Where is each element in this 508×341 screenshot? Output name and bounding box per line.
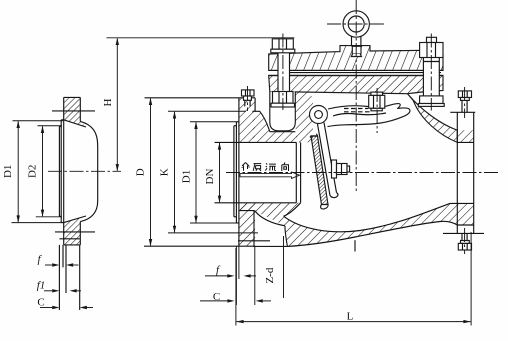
bonnet gasket joint lines bbox=[269, 69, 443, 71]
left view top rim (hatched) bbox=[64, 97, 86, 127]
svg-text:D1: D1 bbox=[181, 170, 193, 183]
DIMENSIONS bbox=[12, 38, 472, 326]
eyebolt ring inner bbox=[348, 16, 364, 32]
left view horizontal centerline bbox=[48, 170, 121, 172]
left view neck bulge bbox=[80, 121, 97, 221]
outlet flange stud (bottom) bbox=[461, 233, 463, 240]
outlet flange stud centerline top bbox=[464, 87, 466, 118]
svg-text:K: K bbox=[159, 168, 171, 176]
inlet bore top line bbox=[215, 141, 297, 143]
dimension D2 (left view) bbox=[42, 126, 44, 216]
left view raised face step 2 bbox=[58, 127, 60, 217]
body upper flange band (hatched) bbox=[269, 76, 443, 94]
bonnet bolt left: upper nut bbox=[272, 39, 293, 49]
hinge arm (horizontal lever with hook) bbox=[328, 104, 410, 127]
inlet flange (hatched bands) bbox=[239, 98, 255, 143]
inlet flange outline bbox=[238, 98, 240, 246]
seat ring bbox=[295, 142, 297, 202]
left view bottom rim (hatched) bbox=[64, 216, 86, 245]
svg-text:C: C bbox=[213, 291, 220, 303]
outlet bore lines bbox=[450, 202, 474, 204]
body right wall (hatched band) bbox=[408, 94, 458, 143]
disc bottom curl bbox=[321, 205, 329, 209]
eyebolt ring outer bbox=[343, 11, 369, 37]
eyebolt vertical centerline bbox=[355, 0, 357, 192]
dimension f (left view) bbox=[45, 264, 52, 266]
outlet flange stud centerline bottom bbox=[464, 228, 466, 254]
left view pipe end step line bbox=[59, 238, 79, 240]
disc bolt nut bbox=[337, 164, 348, 175]
bowl outer curve bbox=[287, 221, 457, 246]
svg-text:f: f bbox=[37, 254, 42, 266]
arm middle wavy line bbox=[333, 113, 386, 116]
left bonnet bolt centerline bbox=[282, 34, 284, 111]
inlet raised face step 1 bbox=[235, 122, 237, 223]
Z-d leader line bbox=[283, 236, 285, 298]
disc bolt washer plate bbox=[332, 160, 337, 178]
left view raised face step 1 bbox=[60, 120, 62, 223]
hinge arm lower part (boss to disc lug) bbox=[318, 123, 337, 196]
bonnet bolt left: lower nut bbox=[273, 92, 294, 104]
dimension H bbox=[107, 37, 295, 39]
arm hidden lines bbox=[344, 109, 370, 112]
inlet bottom wall band (hatched) bbox=[239, 203, 457, 247]
dimension f (main) bbox=[235, 246, 237, 305]
outlet flange bbox=[456, 112, 458, 233]
left nut recess in body (white U) bbox=[270, 92, 296, 131]
dimension labels bbox=[2, 98, 354, 322]
main horizontal centerline bbox=[226, 172, 500, 174]
arm pivot stud nut (on arm) bbox=[371, 108, 382, 111]
left view bolt circle lines bbox=[52, 110, 95, 112]
bonnet bolt left: stud shaft bbox=[277, 53, 279, 92]
dimension f1 (left view) bbox=[44, 290, 52, 292]
dimension DN bbox=[219, 143, 221, 202]
bonnet bolt right: lower nut bbox=[420, 96, 443, 104]
sump boss outline bbox=[254, 211, 287, 247]
svg-text:H: H bbox=[102, 98, 114, 106]
dimension D bbox=[150, 98, 152, 245]
bonnet cover slab (hatched) bbox=[269, 46, 443, 71]
eyebolt shank bbox=[351, 36, 353, 46]
left view flange outline bbox=[63, 97, 65, 245]
outlet flange stud (top) bbox=[458, 91, 471, 98]
bonnet stud hole right (white band) bbox=[423, 57, 439, 96]
hinge support wall (hatched) bbox=[295, 92, 313, 143]
body neck left wall + inlet top wall (hatched) bbox=[252, 111, 300, 142]
eyebolt boss nut bbox=[352, 46, 361, 54]
flow direction text 介质流向 bbox=[242, 162, 289, 171]
centerlines (dash-dot) bbox=[48, 0, 500, 254]
svg-text:f: f bbox=[216, 264, 221, 276]
disc (clapper, tilted, cross-hatched) bbox=[311, 136, 328, 205]
dimension D1 (left view) bbox=[17, 121, 19, 222]
dimension D1 (main) bbox=[195, 122, 197, 222]
sump inner curve bbox=[255, 211, 285, 226]
hinge pin bbox=[315, 111, 323, 119]
svg-text:D1: D1 bbox=[2, 165, 14, 178]
inlet flange stud centerline bbox=[247, 86, 249, 111]
char 流 bbox=[265, 163, 276, 170]
inlet top outer outline bbox=[252, 111, 269, 131]
svg-text:f1: f1 bbox=[37, 280, 46, 292]
dimension L bbox=[235, 248, 237, 326]
right bonnet bolt centerline bbox=[430, 34, 432, 111]
bowl inner curve bbox=[284, 203, 450, 231]
left view rim cone lines bbox=[64, 120, 86, 127]
svg-text:L: L bbox=[347, 311, 354, 323]
left view extension lines below flange bbox=[58, 245, 60, 310]
inlet flange stud (top) bbox=[242, 90, 255, 96]
char 向 bbox=[282, 162, 289, 171]
dimension C (left view) bbox=[40, 307, 52, 309]
bonnet bolt right: stud tip bbox=[427, 37, 437, 42]
eyebolt horizontal centerline bbox=[327, 23, 386, 25]
arm stud centerline bbox=[376, 88, 378, 133]
flow direction arrow bbox=[240, 172, 300, 178]
svg-text:DN: DN bbox=[204, 169, 216, 185]
bonnet stud hole left (white band) bbox=[278, 52, 290, 92]
sump boss step line bbox=[238, 240, 270, 242]
hinge boss circle bbox=[310, 106, 328, 124]
char 质 bbox=[253, 164, 261, 171]
bonnet bolt right: upper nut bbox=[420, 43, 443, 58]
svg-text:C: C bbox=[37, 297, 44, 309]
char 介 bbox=[242, 163, 249, 171]
inlet raised face step 2 bbox=[233, 126, 235, 217]
svg-text:Z-d: Z-d bbox=[264, 267, 276, 283]
disc top tab bbox=[310, 134, 318, 138]
inlet bore bottom line bbox=[215, 202, 297, 204]
dimension C (main) bbox=[200, 300, 227, 302]
dimension K bbox=[174, 112, 176, 233]
bonnet bolt right: stud shaft bbox=[422, 58, 424, 96]
seat-to-sump floor curve bbox=[284, 203, 301, 216]
svg-text:D: D bbox=[135, 168, 147, 176]
bowl bottom tick line bbox=[354, 240, 356, 251]
svg-text:D2: D2 bbox=[27, 165, 39, 178]
arm lug below disc bolt bbox=[330, 193, 338, 198]
